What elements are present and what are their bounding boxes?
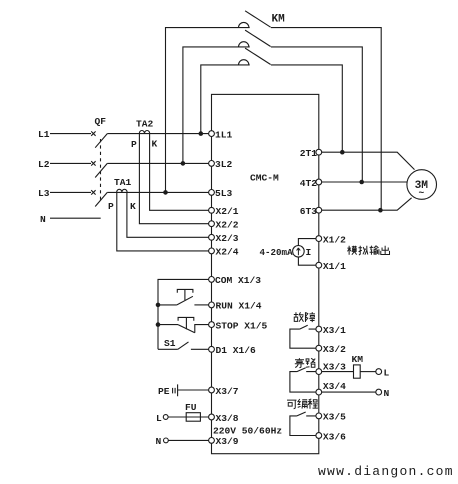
contactor KM main contact 3 blade	[245, 48, 271, 64]
current transformer TA2 lead P to X2/2	[139, 134, 208, 224]
wire: COM rail from terminal	[158, 279, 209, 349]
wire: PE to X3/7	[178, 389, 209, 391]
svg-text:X3/9: X3/9	[216, 436, 239, 447]
svg-text:RUN X1/4: RUN X1/4	[216, 301, 262, 312]
terminal 5L3	[209, 190, 215, 196]
terminal X2/2	[209, 221, 215, 227]
relay contact fault (X3/1-X3/2)	[290, 325, 316, 348]
junction RUN rail	[156, 303, 161, 308]
CJK label 旁路 (bypass)	[295, 358, 316, 368]
svg-text:K: K	[152, 138, 158, 149]
wire: 2T1 to motor	[322, 152, 415, 169]
PE ground symbol	[173, 384, 178, 396]
svg-text:6T3: 6T3	[300, 206, 318, 217]
terminal 6T3	[316, 207, 322, 213]
wire: X1/2 to ammeter	[298, 239, 316, 246]
wire: L2 from QF to terminal 3L2	[107, 162, 208, 164]
contactor KM main contact 2 right wire to 4T2	[271, 47, 362, 182]
pushbutton STOP actuator	[178, 317, 194, 329]
terminal circle L (coil)	[376, 369, 382, 375]
junction dots	[156, 131, 383, 327]
svg-text:3L2: 3L2	[215, 159, 233, 170]
terminal X3/5	[316, 413, 322, 419]
contactor KM main contact 2 left wire from 3L2	[183, 47, 250, 163]
contactor KM main contact 1 blade	[245, 11, 271, 27]
pushbutton RUN (NO) left lead	[158, 304, 177, 306]
terminal D1 X1/6	[209, 346, 215, 352]
terminal X3/1	[316, 326, 322, 332]
svg-text:KM: KM	[352, 354, 364, 365]
relay contact programmable (X3/5-X3/6)	[290, 412, 316, 436]
pushbutton RUN actuator	[177, 289, 193, 300]
svg-text:STOP X1/5: STOP X1/5	[216, 320, 268, 331]
wire: KM coil to L	[360, 371, 376, 373]
terminal circle N (coil)	[376, 389, 382, 395]
svg-text:TA1: TA1	[114, 177, 132, 188]
contactor KM main contact 2 blade	[245, 30, 271, 46]
switch S1 right lead	[191, 348, 209, 350]
terminal COM X1/3	[209, 277, 215, 283]
contactor KM main contact 2 arc	[239, 42, 249, 47]
svg-text:N: N	[156, 436, 162, 447]
svg-text:www.diangon.com: www.diangon.com	[318, 464, 454, 479]
svg-text:X2/1: X2/1	[216, 206, 239, 217]
contactor KM main contact 3 right wire to 2T1	[271, 65, 342, 152]
svg-text:COM X1/3: COM X1/3	[215, 275, 261, 286]
junction 2T1/KM	[340, 150, 345, 155]
svg-text:S1: S1	[164, 338, 176, 349]
junction 6T3/KM	[378, 208, 383, 213]
terminal X3/7	[209, 387, 215, 393]
svg-text:K: K	[130, 201, 136, 212]
terminal X3/2	[316, 345, 322, 351]
svg-text:220V 50/60Hz: 220V 50/60Hz	[213, 426, 282, 437]
junction 3L2/KM	[181, 161, 186, 166]
wire: 6T3 to motor	[322, 198, 412, 210]
svg-text:PE: PE	[158, 386, 170, 397]
svg-text:X3/8: X3/8	[216, 413, 239, 424]
breaker QF pole 1 fixed contact x	[91, 131, 95, 135]
contactor KM main contact 1 right wire to 6T3	[271, 28, 381, 211]
svg-text:L1: L1	[38, 129, 50, 140]
terminal X3/4	[316, 389, 322, 395]
wire: ammeter to X1/1	[298, 257, 316, 265]
junction STOP rail	[156, 322, 161, 327]
svg-text:X3/2: X3/2	[323, 344, 346, 355]
pushbutton RUN right lead	[194, 304, 208, 306]
terminal X2/1	[209, 207, 215, 213]
breaker QF linkage dashed line	[100, 139, 102, 203]
wire: X3/3 to KM coil	[322, 371, 354, 373]
pushbutton STOP (NC) left lead	[158, 324, 178, 326]
contactor KM main contact 1 arc	[239, 22, 249, 27]
terminal X3/3	[316, 369, 322, 375]
breaker QF pole 2 fixed contact x	[91, 161, 95, 165]
ammeter arrow	[297, 248, 301, 255]
terminal circles on box edges	[209, 131, 322, 444]
terminal X2/3	[209, 234, 215, 240]
svg-text:L: L	[156, 413, 162, 424]
contactor coil KM	[354, 365, 361, 378]
CJK label 可编程 (programmable)	[287, 399, 318, 409]
svg-text:1L1: 1L1	[215, 129, 233, 140]
current transformer TA1 lead P to X2/4	[117, 192, 209, 251]
CMC-M soft starter box	[212, 94, 319, 453]
terminal X1/1	[316, 262, 322, 268]
svg-text:D1 X1/6: D1 X1/6	[216, 345, 257, 356]
breaker QF pole 3 blade	[95, 192, 107, 206]
junction 1L1/KM	[199, 131, 204, 136]
switch S1 blade	[178, 342, 189, 349]
svg-text:P: P	[131, 139, 137, 150]
terminal RUN X1/4	[209, 302, 215, 308]
svg-text:2T1: 2T1	[300, 148, 318, 159]
terminal circle N supply	[164, 438, 169, 443]
fuse FU body	[186, 413, 200, 422]
svg-text:I: I	[306, 247, 312, 258]
svg-text:X3/3: X3/3	[323, 361, 346, 372]
terminal X3/8	[209, 414, 215, 420]
terminal circle L supply	[163, 415, 168, 420]
contactor KM main contact 3 arc	[239, 60, 249, 65]
wire: L3 input lead	[50, 191, 91, 193]
terminal X2/4	[209, 248, 215, 254]
wire: X3/4 to N	[322, 391, 376, 393]
svg-text:X3/5: X3/5	[323, 412, 346, 423]
current transformer TA2 lead K to X2/1	[150, 134, 209, 211]
breaker QF pole 2 blade	[95, 163, 107, 177]
terminal 4T2	[316, 179, 322, 185]
wire: N supply to X3/9	[168, 439, 209, 441]
terminal STOP X1/5	[209, 322, 215, 328]
svg-text:~: ~	[419, 188, 425, 199]
svg-text:X3/6: X3/6	[323, 431, 346, 442]
terminal 3L2	[209, 161, 215, 167]
svg-text:QF: QF	[95, 116, 107, 127]
wire: L supply to fuse	[168, 416, 209, 418]
svg-text:4T2: 4T2	[300, 178, 318, 189]
pushbutton STOP right lead with catch	[195, 325, 209, 333]
svg-text:X3/7: X3/7	[216, 386, 239, 397]
svg-text:5L3: 5L3	[215, 188, 233, 199]
terminal 1L1	[209, 131, 215, 137]
wire: L1 input lead	[50, 133, 91, 135]
pushbutton RUN blade	[177, 296, 193, 305]
relay contact bypass (X3/3-X3/4)	[290, 368, 316, 392]
svg-text:L: L	[384, 368, 390, 379]
svg-text:X3/1: X3/1	[323, 325, 346, 336]
contactor KM main contact 3 left wire from 1L1	[201, 65, 250, 134]
svg-text:X2/3: X2/3	[216, 233, 239, 244]
current transformer TA2 windings on L1	[139, 131, 149, 134]
CJK label 故障 (fault)	[294, 312, 315, 322]
svg-text:X1/2: X1/2	[323, 234, 346, 245]
svg-text:TA2: TA2	[136, 118, 154, 129]
current transformer TA1 windings on L3	[117, 189, 127, 192]
svg-text:N: N	[40, 214, 46, 225]
junction 4T2/KM	[359, 180, 364, 185]
svg-text:N: N	[384, 388, 390, 399]
current transformer TA1 lead K to X2/3	[127, 192, 209, 237]
svg-text:X1/1: X1/1	[323, 261, 346, 272]
junction 5L3/KM	[163, 190, 168, 195]
svg-text:CMC-M: CMC-M	[250, 173, 279, 184]
breaker QF pole 1 blade	[95, 134, 107, 148]
svg-text:FU: FU	[185, 402, 197, 413]
svg-text:L3: L3	[38, 188, 50, 199]
terminal X3/6	[316, 433, 322, 439]
svg-text:KM: KM	[272, 14, 286, 26]
svg-text:P: P	[108, 201, 114, 212]
terminal X3/9	[209, 438, 215, 444]
contactor KM main contact 1 left wire from 5L3	[166, 28, 250, 193]
breaker QF pole 3 fixed contact x	[91, 190, 95, 194]
wire: L3 from QF to terminal 5L3	[107, 191, 208, 193]
terminal X1/2	[316, 236, 322, 242]
wire: L1 from QF to terminal 1L1	[107, 133, 208, 135]
wire: N input lead	[50, 217, 101, 219]
ammeter I (4-20mA) circle	[293, 246, 305, 258]
svg-text:L2: L2	[38, 159, 50, 170]
switch S1 left lead	[158, 348, 178, 350]
wire: 4T2 to motor	[322, 181, 407, 183]
CJK label 模拟输出 (analog output)	[347, 246, 389, 255]
svg-text:X2/2: X2/2	[216, 220, 239, 231]
svg-text:4-20mA: 4-20mA	[260, 247, 294, 258]
pushbutton STOP blade	[178, 325, 195, 333]
svg-text:X3/4: X3/4	[323, 381, 346, 392]
wire: L2 input lead	[50, 162, 91, 164]
terminal 2T1	[316, 149, 322, 155]
motor 3M circle	[407, 170, 437, 200]
svg-text:X2/4: X2/4	[216, 247, 239, 258]
